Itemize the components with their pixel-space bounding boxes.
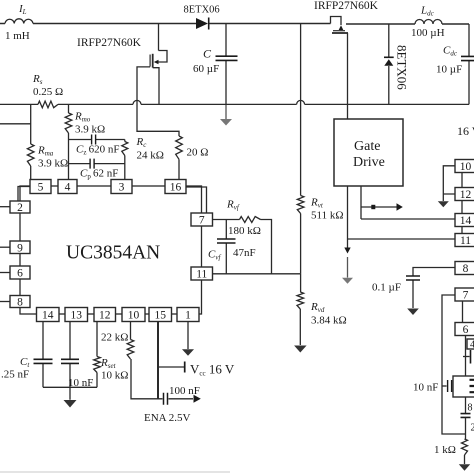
wire gate drive stub B <box>360 186 362 219</box>
diode D2 8ETX06 freewheel <box>384 24 394 104</box>
svg-text:100 nF: 100 nF <box>169 385 200 397</box>
page rule artifact <box>0 471 230 473</box>
capacitor Ct pin14 <box>34 322 53 388</box>
svg-text:Cz 620 nF: Cz 620 nF <box>76 144 120 157</box>
gate drive box <box>334 119 403 186</box>
resistor Rset 10k pin12 <box>94 322 101 388</box>
resistor Rc 24k <box>122 140 128 180</box>
svg-text:13: 13 <box>71 310 83 322</box>
IC2 pin 11 <box>455 234 474 248</box>
wire IC2 pin6 down <box>465 336 467 377</box>
pin 12 <box>94 308 116 322</box>
svg-text:2: 2 <box>471 423 474 434</box>
svg-text:IRFP27N60K: IRFP27N60K <box>77 37 142 49</box>
resistor Rmo 3.9k to pin4 <box>65 104 72 179</box>
svg-text:Drive: Drive <box>353 155 385 170</box>
pin 10 <box>122 308 145 322</box>
wire pin2 stub <box>0 206 10 208</box>
pin 14 <box>37 308 60 322</box>
resistor 22k pin10 <box>127 322 158 399</box>
wire Q1 gate to 20ohm <box>137 67 179 136</box>
IC2 pin connectors <box>461 173 464 323</box>
svg-text:20 Ω: 20 Ω <box>187 147 209 159</box>
svg-text:ENA 2.5V: ENA 2.5V <box>144 412 191 424</box>
wire pin15 Vcc column <box>157 322 159 399</box>
inductor L (1 mH) boost input <box>0 19 196 24</box>
capacitor C 60uF <box>216 24 238 105</box>
svg-text:15: 15 <box>155 310 167 322</box>
svg-text:14: 14 <box>42 310 54 322</box>
pin 16 <box>165 180 186 194</box>
svg-text:16: 16 <box>170 182 182 194</box>
resistor Rs 0.25 ohm in rail <box>0 100 469 107</box>
capacitor Cdc 10uF <box>461 24 474 104</box>
capacitor 100nF ENA <box>158 393 193 405</box>
ground bottom left <box>64 400 77 408</box>
pin 5 <box>30 180 51 194</box>
svg-text:11: 11 <box>196 269 207 281</box>
tiny box 4 <box>467 339 474 351</box>
ground stub below arrow <box>342 257 353 284</box>
pin 8 <box>10 296 30 309</box>
svg-text:10 nF: 10 nF <box>413 382 438 394</box>
svg-text:60 µF: 60 µF <box>193 63 219 75</box>
svg-text:6: 6 <box>17 268 23 280</box>
capacitor 10nF pin13 <box>61 322 79 400</box>
label Gate Drive <box>353 139 385 170</box>
svg-text:511 kΩ: 511 kΩ <box>311 210 344 222</box>
pin 2 <box>10 201 30 214</box>
wire IC2 pin7 bracket <box>442 295 466 434</box>
svg-text:3.9 kΩ: 3.9 kΩ <box>75 124 105 136</box>
svg-text:0.1 µF: 0.1 µF <box>372 282 401 294</box>
resistor Rvf 180k <box>213 217 272 274</box>
capacitor below resonator <box>461 414 471 439</box>
svg-text:8: 8 <box>17 297 23 309</box>
wire Q2 source down to gate drive <box>347 33 349 119</box>
svg-text:24 kΩ: 24 kΩ <box>137 150 164 162</box>
svg-text:12: 12 <box>460 189 472 201</box>
svg-text:11: 11 <box>460 235 471 247</box>
capacitor Cz 620nF branch <box>69 135 125 145</box>
wire pin6 stub <box>0 272 10 274</box>
Vcc tap <box>158 362 185 373</box>
svg-text:47nF: 47nF <box>233 247 256 259</box>
svg-text:12: 12 <box>99 310 111 322</box>
svg-text:180 kΩ: 180 kΩ <box>228 225 261 237</box>
resistor Rvt 511k <box>297 24 304 274</box>
wire pin8 stub <box>0 301 10 303</box>
svg-text:7: 7 <box>199 215 205 227</box>
wire to IC2 pin14 <box>361 218 455 220</box>
op-amp U1 UC3854AN body <box>20 186 202 314</box>
svg-text:Cp 62 nF: Cp 62 nF <box>80 168 118 181</box>
svg-text:4: 4 <box>470 340 474 351</box>
pin 15 <box>149 308 172 322</box>
mosfet Q1 body <box>150 51 167 68</box>
pin 9 <box>10 241 30 254</box>
wire gate drive stub A <box>347 186 349 239</box>
svg-text:1 kΩ: 1 kΩ <box>434 444 456 456</box>
resonator box <box>453 376 474 397</box>
svg-text:3.9 kΩ: 3.9 kΩ <box>38 158 68 170</box>
svg-text:7: 7 <box>463 290 469 302</box>
wire pin5 to pin2 <box>18 187 30 202</box>
arrow down below junction <box>344 239 350 254</box>
svg-text:8: 8 <box>468 403 473 414</box>
svg-text:10 kΩ: 10 kΩ <box>101 370 128 382</box>
svg-text:8ETX06: 8ETX06 <box>184 5 220 16</box>
resistor Rma 3.9k to pin5 <box>0 104 34 179</box>
svg-text:UC3854AN: UC3854AN <box>66 243 160 264</box>
wire to IC2 pin11 <box>348 238 456 240</box>
inductor Ldc 100uH <box>415 20 469 25</box>
svg-text:IRFP27N60K: IRFP27N60K <box>314 0 379 12</box>
IC2 pin 12 <box>455 188 474 202</box>
svg-text:14: 14 <box>460 215 472 227</box>
svg-text:.25 nF: .25 nF <box>1 369 29 381</box>
svg-text:C: C <box>203 47 212 61</box>
svg-text:2: 2 <box>17 202 23 214</box>
mosfet Q2 body <box>331 17 349 34</box>
wire Q2 to Ldc <box>346 23 415 25</box>
pin 13 <box>65 308 88 322</box>
capacitor Cp 62nF branch <box>69 159 125 169</box>
pin 3 <box>111 180 132 194</box>
arrow branch right <box>361 203 403 210</box>
svg-text:1 mH: 1 mH <box>5 30 30 42</box>
capacitor Cvf 47nF <box>217 220 236 274</box>
ground below Rvd <box>294 346 307 353</box>
IC2 pin 10 <box>455 160 474 174</box>
ground IC2 1012 <box>438 201 449 207</box>
ground below 0.1uF <box>407 309 419 316</box>
svg-text:10: 10 <box>128 310 140 322</box>
svg-text:0.25 Ω: 0.25 Ω <box>33 86 63 98</box>
pin 7 <box>191 213 213 227</box>
IC2 pin 7 <box>455 288 474 302</box>
capacitor 10nF bottom right <box>442 380 452 392</box>
svg-text:Vcc 16 V: Vcc 16 V <box>190 362 235 378</box>
svg-text:8: 8 <box>463 263 469 275</box>
svg-text:6: 6 <box>463 324 469 336</box>
svg-text:9: 9 <box>17 242 23 254</box>
resistor 20 ohm gate <box>176 136 183 180</box>
IC2 pin 14 <box>455 214 474 228</box>
wire IC2 pins10-12 to ground <box>443 166 455 201</box>
pin 11 <box>191 267 213 281</box>
svg-text:5: 5 <box>38 182 44 194</box>
wire pin16 to pin7 <box>186 187 207 213</box>
diode D1 8ETX06 <box>196 18 331 30</box>
ground pin1 <box>182 322 194 356</box>
svg-text:1: 1 <box>185 310 191 322</box>
ground below 1k <box>459 464 470 471</box>
svg-text:8ETX06: 8ETX06 <box>395 45 410 90</box>
pin 1 <box>177 308 199 322</box>
mosfet Q1 IRFP27N60K drain wire <box>158 24 160 51</box>
svg-text:16 V: 16 V <box>457 124 474 138</box>
svg-text:100 µH: 100 µH <box>411 27 445 39</box>
svg-text:3.84 kΩ: 3.84 kΩ <box>311 315 347 327</box>
small cap stub <box>463 350 471 364</box>
IC2 pin 8 <box>455 262 474 276</box>
wire pin9 stub <box>0 246 10 248</box>
capacitor 0.1uF on IC2 pin8 <box>406 268 455 309</box>
svg-text:10 µF: 10 µF <box>436 64 462 76</box>
wire pin11 to node <box>213 273 301 275</box>
resistor Rvd 3.84k <box>297 274 304 345</box>
IC2 pin 6 <box>455 323 474 337</box>
ground below C <box>220 104 232 125</box>
svg-text:3: 3 <box>119 182 125 194</box>
resistor 1k <box>462 439 468 464</box>
wire cap bottoms <box>43 386 97 388</box>
svg-text:4: 4 <box>65 182 71 194</box>
svg-text:10: 10 <box>460 161 472 173</box>
wire Q1 source to rail <box>153 68 159 105</box>
pin 4 <box>58 180 77 194</box>
pin 6 <box>10 266 30 280</box>
svg-text:Gate: Gate <box>354 139 380 154</box>
wire resonator down <box>465 397 467 413</box>
arrow right ENA <box>194 395 201 403</box>
svg-text:22 kΩ: 22 kΩ <box>101 332 128 344</box>
